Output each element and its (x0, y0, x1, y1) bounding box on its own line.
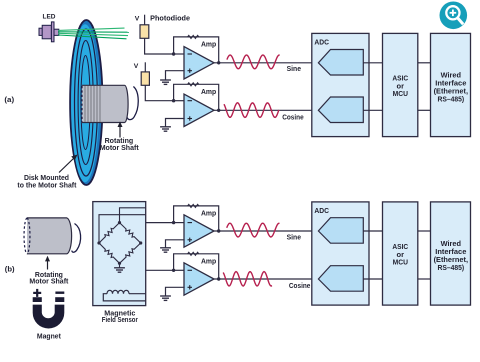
node input U1 (172, 52, 175, 55)
svg-text:Motor Shaft: Motor Shaft (100, 143, 140, 152)
wire output U2 to ADC (214, 109, 318, 111)
zoom icon (440, 2, 468, 30)
svg-text:ADC: ADC (314, 206, 329, 215)
magnet pole cap left (33, 297, 42, 302)
resistor R2 (188, 83, 199, 86)
disk ring 2 (78, 41, 93, 165)
wire D2 to U2 (145, 85, 173, 100)
wire ADC symbol1 out (a) (363, 62, 382, 64)
wire ASIC to interface 1 (b) (418, 230, 431, 232)
wire output U4 to ADC (214, 278, 318, 280)
rotation arc (b) (72, 224, 81, 253)
Wired Interface block (a) (431, 33, 471, 136)
pointer arrow shaft (a) (119, 125, 121, 138)
svg-text:(a): (a) (4, 95, 14, 104)
disk ring 3 (81, 56, 90, 150)
op-amp U4 (184, 263, 214, 295)
node input U3 (172, 221, 175, 224)
svg-text:RS–485): RS–485) (437, 263, 464, 272)
svg-text:Amp: Amp (201, 256, 217, 265)
svg-text:ADC: ADC (314, 38, 329, 47)
node input U2 (172, 99, 175, 102)
ground U4 (160, 296, 171, 300)
magnet minus sign (55, 292, 64, 294)
bridge node left (97, 241, 100, 244)
wire sensor to U3 (146, 222, 174, 224)
supply wire V2 (144, 62, 146, 72)
LED light rays (58, 28, 129, 39)
bridge routing wire top node (120, 208, 146, 223)
op-amp U3 (184, 215, 214, 247)
resistor R4 (188, 252, 199, 255)
motor shaft (b) (24, 218, 72, 254)
resistor R3 (188, 204, 199, 207)
ground U3 (160, 248, 171, 252)
svg-text:Sine: Sine (287, 235, 301, 242)
feedback wire U2 (174, 84, 219, 110)
op-amp U2 (184, 94, 214, 126)
feedback wire U3 (174, 206, 219, 231)
svg-text:Cosine: Cosine (289, 283, 311, 290)
svg-text:(b): (b) (5, 264, 15, 273)
resistor R1 (188, 35, 199, 38)
inductor L1 (107, 290, 129, 293)
wire ASIC to interface 2 (b) (418, 278, 431, 280)
ASIC/MCU block (b) (383, 202, 418, 305)
wire ASIC to interface 2 (a) (418, 109, 431, 111)
ground wire U3 (166, 240, 185, 248)
sine wave (a) (227, 55, 280, 69)
svg-text:Sine: Sine (287, 66, 301, 73)
LED (39, 22, 59, 42)
svg-text:to the Motor Shaft: to the Motor Shaft (17, 181, 77, 190)
wire sensor to U4 (146, 269, 174, 271)
wire output U3 to ADC (214, 230, 318, 232)
wire input to op-amp U1 (174, 53, 185, 55)
ASIC/MCU block (a) (383, 33, 418, 136)
svg-text:Cosine: Cosine (282, 115, 304, 122)
bridge resistor R8 (120, 243, 141, 263)
ground wire U1 (166, 71, 185, 80)
pointer arrow disk (59, 158, 75, 173)
bridge ground (114, 268, 125, 272)
ADC converter symbol 2 (a) (318, 97, 363, 123)
svg-text:Amp: Amp (201, 40, 217, 49)
bridge resistor R7 (99, 243, 120, 263)
bridge node top (118, 221, 121, 224)
inductor lead left loop (103, 294, 145, 301)
rotation arc (a) (127, 87, 138, 120)
node output U1 (217, 61, 220, 64)
sine wave (b) (227, 223, 280, 237)
pointer arrow shaft (b) (47, 259, 49, 270)
feedback wire U1 (174, 37, 219, 63)
svg-text:V: V (134, 63, 139, 70)
svg-text:RS–485): RS–485) (437, 94, 464, 103)
supply wire V1 (144, 15, 146, 25)
ADC converter symbol 1 (b) (318, 218, 363, 244)
op-amp U1 (184, 47, 214, 79)
ground wire U2 (166, 119, 185, 127)
svg-text:MCU: MCU (393, 258, 409, 267)
magnet pole cap right (55, 297, 64, 302)
wire input to op-amp U3 (174, 222, 185, 224)
ADC block (b) (312, 202, 369, 305)
svg-text:LED: LED (43, 15, 57, 21)
svg-text:Field Sensor: Field Sensor (102, 317, 138, 324)
Wired Interface block (b) (431, 202, 471, 305)
wire ADC symbol2 out (b) (363, 278, 382, 280)
bridge resistor R6 (120, 223, 141, 243)
magnet U body (33, 305, 65, 329)
ADC block (a) (312, 33, 369, 136)
magnetic field sensor box (93, 202, 146, 306)
inductor lead right (129, 293, 146, 295)
ground U1 (160, 80, 171, 84)
photodiode D2 (141, 72, 149, 85)
magnet plus sign (33, 289, 41, 297)
wire ADC symbol1 out (b) (363, 230, 382, 232)
ADC converter symbol 2 (b) (318, 266, 363, 292)
svg-text:V: V (135, 16, 140, 23)
ground wire U4 (166, 287, 185, 296)
svg-text:Amp: Amp (201, 209, 217, 218)
wire input to op-amp U4 (174, 269, 185, 271)
motor shaft (a) (82, 85, 128, 122)
bridge node bottom (118, 262, 121, 265)
svg-text:Photodiode: Photodiode (150, 16, 190, 23)
feedback wire U4 (174, 254, 219, 279)
bridge resistor R5 (99, 223, 120, 243)
node output U4 (217, 277, 220, 280)
svg-text:Magnet: Magnet (37, 333, 62, 340)
wire ASIC to interface 1 (a) (418, 62, 431, 64)
wire output U1 to ADC (214, 62, 318, 64)
photodiode D1 (140, 25, 149, 39)
bridge node right (139, 241, 142, 244)
bridge routing wire left node (99, 215, 146, 243)
svg-text:MCU: MCU (393, 89, 409, 98)
wire ADC symbol2 out (a) (363, 109, 382, 111)
disk ring 1 (75, 29, 98, 176)
ground U2 (160, 127, 171, 131)
node output U2 (217, 109, 220, 112)
wire input to op-amp U2 (174, 100, 185, 102)
node output U3 (217, 229, 220, 232)
cosine wave (b) (223, 272, 272, 286)
svg-text:Motor Shaft: Motor Shaft (29, 277, 69, 286)
code disk (70, 20, 102, 185)
cosine wave (a) (224, 103, 279, 118)
svg-text:Amp: Amp (201, 87, 217, 96)
node input U4 (172, 269, 175, 272)
ADC converter symbol 1 (a) (318, 50, 363, 76)
bridge ground wire (119, 263, 121, 268)
wire D1 to U1 (145, 38, 174, 54)
